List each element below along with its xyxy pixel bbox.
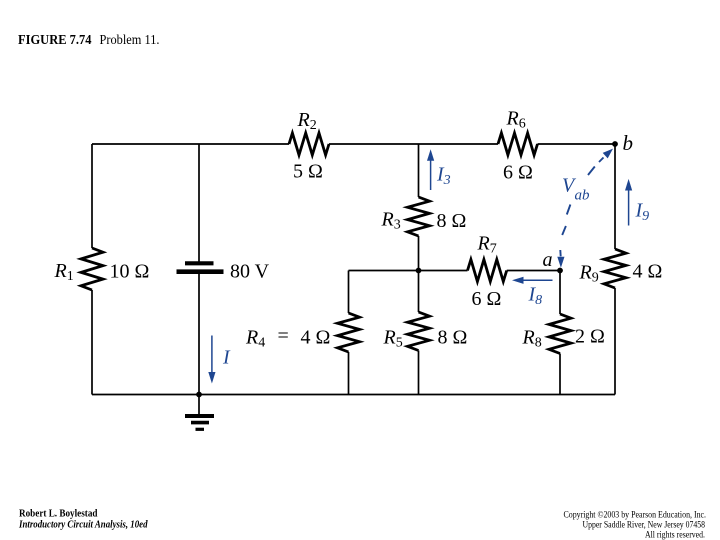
label R3 [381, 209, 401, 233]
svg-text:5 Ω: 5 Ω [293, 161, 323, 183]
wire left vertical lower (R1 to bottom wire) [91, 290, 93, 395]
wire R5 branch upper (middle wire to R5) [418, 271, 420, 313]
svg-text:All rights reserved.: All rights reserved. [645, 529, 705, 539]
label R5 [383, 327, 403, 351]
resistor R4 [338, 313, 360, 352]
ground symbol [185, 395, 214, 430]
footer left: author [18, 509, 148, 531]
label I9 [635, 200, 650, 225]
label I (source current) [222, 347, 231, 369]
resistor R6 [498, 133, 538, 155]
resistor R1 [81, 248, 103, 290]
svg-text:4 Ω: 4 Ω [633, 261, 663, 283]
svg-text:a: a [543, 249, 553, 271]
wire R3 branch lower (R3 to middle wire) [418, 236, 420, 271]
svg-text:Upper Saddle River, New Jersey: Upper Saddle River, New Jersey 07458 [583, 519, 706, 529]
value 8 ohm (R3) [437, 210, 467, 232]
svg-text:2 Ω: 2 Ω [575, 326, 605, 348]
label I8 [528, 284, 543, 309]
wire battery branch upper (top wire to battery) [198, 144, 200, 262]
svg-text:I: I [222, 347, 231, 369]
resistor R5 [408, 312, 430, 351]
current arrow I9 [625, 179, 632, 226]
Vab dashed arrow (node a to node b) [557, 149, 613, 268]
svg-text:8 Ω: 8 Ω [438, 327, 468, 349]
current arrow I8 [512, 277, 553, 284]
wire left vertical upper (top wire to R1) [91, 144, 93, 248]
wire right vertical lower (R9 to bottom wire) [614, 288, 616, 395]
node b label [623, 131, 634, 155]
value 8 ohm (R5) [438, 327, 468, 349]
svg-text:=: = [278, 325, 289, 347]
resistor R7 [468, 260, 507, 282]
label R2 [297, 109, 317, 133]
label R8 [522, 327, 542, 351]
value 2 ohm (R8) [575, 326, 605, 348]
label R1 [54, 260, 74, 284]
wire bottom horizontal [92, 394, 615, 396]
wire R3 branch upper (top wire to R3) [418, 144, 420, 197]
current arrow I3 [427, 149, 434, 190]
label Vab [562, 175, 590, 204]
ground junction dot [196, 392, 202, 398]
label I3 [436, 164, 451, 189]
wire R4 branch upper (middle wire corner down to R4) [348, 271, 350, 314]
value 10 ohm (R1) [110, 260, 150, 282]
label R9 [579, 262, 599, 286]
value 80 V (battery) [230, 260, 270, 282]
svg-text:4 Ω: 4 Ω [301, 327, 331, 349]
wire R8 branch lower (R8 to bottom wire) [559, 354, 561, 395]
label R4 = 4 ohm [245, 325, 330, 351]
wire R8 branch upper (node a to R8) [559, 271, 561, 315]
node a junction dot [557, 268, 563, 274]
svg-text:80 V: 80 V [230, 260, 270, 282]
wire battery branch lower (battery to bottom wire) [198, 274, 200, 395]
node junction dot (R3/R5 on middle wire) [416, 268, 422, 274]
svg-text:Robert L. Boylestad: Robert L. Boylestad [19, 509, 98, 520]
wire top-left horizontal (node to R2) [92, 143, 289, 145]
value 6 ohm (R6) [503, 162, 533, 184]
svg-text:ab: ab [575, 188, 591, 204]
node b junction dot [612, 141, 618, 147]
title FIGURE 7.74 Problem 11. [18, 33, 160, 48]
svg-text:b: b [623, 131, 634, 155]
current arrow I (source branch) [208, 336, 215, 384]
svg-text:Introductory Circuit Analysis,: Introductory Circuit Analysis, 10ed [18, 520, 148, 531]
svg-text:6 Ω: 6 Ω [472, 288, 502, 310]
wire R4 branch lower (R4 to bottom wire) [348, 352, 350, 395]
footer right: copyright [564, 509, 707, 539]
resistor R2 [289, 133, 329, 155]
resistor R9 [604, 249, 626, 288]
svg-text:10 Ω: 10 Ω [110, 260, 150, 282]
wire R5 branch lower (R5 to bottom wire) [418, 351, 420, 395]
label R7 [477, 233, 497, 257]
svg-text:Copyright ©2003 by Pearson Edu: Copyright ©2003 by Pearson Education, In… [564, 509, 707, 519]
resistor R3 [408, 197, 430, 236]
node a label [543, 249, 553, 271]
value 5 ohm (R2) [293, 161, 323, 183]
value 6 ohm (R7) [472, 288, 502, 310]
resistor R8 [549, 314, 571, 354]
wire top-right horizontal (R6 to node b) [538, 143, 616, 145]
wire right vertical upper (node b to R9) [614, 144, 616, 249]
svg-text:Problem 11.: Problem 11. [100, 33, 160, 48]
svg-text:FIGURE 7.74: FIGURE 7.74 [18, 33, 92, 48]
wire middle horizontal right (R7 to node a) [507, 270, 560, 272]
battery 80V top plate [185, 261, 214, 265]
svg-text:8 Ω: 8 Ω [437, 210, 467, 232]
wire middle horizontal left (corner to R7) [349, 270, 468, 272]
value 4 ohm (R9) [633, 261, 663, 283]
wire top-middle horizontal (R2 to R6) [329, 143, 498, 145]
battery 80V bottom plate [177, 269, 224, 274]
svg-text:6 Ω: 6 Ω [503, 162, 533, 184]
label R6 [506, 108, 526, 132]
